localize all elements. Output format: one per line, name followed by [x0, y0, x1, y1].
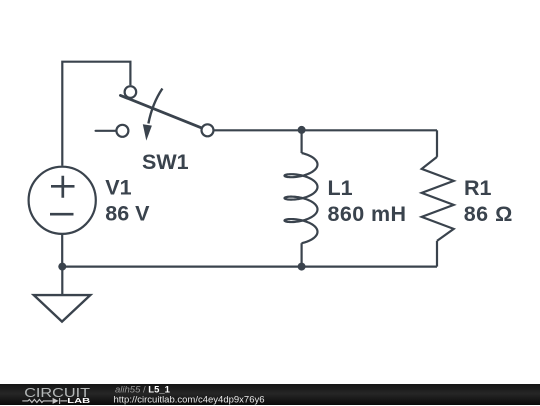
- svg-text:R1: R1: [464, 176, 492, 200]
- wire from V1 minus terminal down to bottom net: [61, 234, 63, 267]
- svg-text:860 mH: 860 mH: [328, 202, 407, 226]
- svg-text:86 Ω: 86 Ω: [464, 202, 513, 226]
- wire from SW1 output right to R1 branch: [214, 129, 438, 131]
- svg-text:L1: L1: [328, 176, 353, 200]
- svg-text:SW1: SW1: [142, 150, 189, 174]
- svg-text:86 V: 86 V: [105, 201, 150, 225]
- voltage source V1: [29, 167, 96, 234]
- bottom net wire: [62, 266, 437, 268]
- footer bar: [0, 384, 540, 405]
- switch SW1: [96, 86, 214, 140]
- svg-text:http://circuitlab.com/c4ey4dp9: http://circuitlab.com/c4ey4dp9x76y6: [114, 394, 265, 405]
- svg-text:V1: V1: [105, 176, 131, 200]
- svg-text:LAB: LAB: [67, 396, 90, 405]
- resistor R1: [422, 130, 454, 266]
- inductor L1: [285, 130, 318, 267]
- node junction at V1 bottom: [58, 263, 66, 271]
- ground: [34, 295, 91, 322]
- node junction at bottom of L1: [298, 263, 306, 271]
- wire from V1 plus terminal up and right to SW1 input: [62, 62, 130, 166]
- logo wire with resistor zigzag: [22, 398, 67, 404]
- wire from junction down to ground: [61, 267, 63, 295]
- logo diode symbol: [53, 398, 59, 404]
- node junction at top of L1: [298, 126, 306, 134]
